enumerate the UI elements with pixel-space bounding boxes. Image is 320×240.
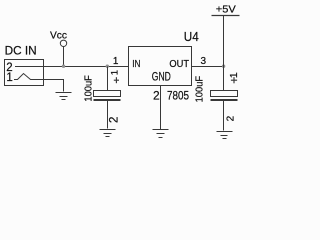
capacitor C2 bottom plate	[211, 99, 238, 101]
svg-text:1: 1	[6, 72, 12, 84]
capacitor C1 top plate	[94, 91, 121, 97]
capacitor C2 top plate	[211, 91, 238, 97]
svg-text:GND: GND	[152, 71, 171, 83]
svg-text:100uF: 100uF	[83, 75, 95, 102]
wire right cap bottom stem	[223, 101, 225, 131]
wire main net from J1 pin2 to U4 IN	[44, 66, 129, 68]
svg-text:100uF: 100uF	[193, 76, 205, 103]
svg-text:3: 3	[201, 56, 207, 67]
svg-text:U4: U4	[184, 29, 199, 44]
junction at C left	[106, 65, 109, 68]
power port +5V bar	[212, 15, 240, 17]
junction at right cap	[222, 65, 225, 68]
capacitor C2 plus sign	[231, 77, 237, 83]
svg-text:1: 1	[109, 70, 120, 75]
power port Vcc circle	[60, 40, 66, 46]
connector J1 pin 2 contact line	[15, 66, 44, 68]
svg-text:2: 2	[225, 115, 236, 121]
wire left cap top stem	[107, 67, 109, 91]
wire J1 pin1 to ground	[44, 80, 64, 92]
capacitor C1 bottom plate	[94, 99, 121, 101]
svg-text:2: 2	[153, 88, 160, 102]
ground under U4	[153, 130, 169, 138]
svg-text:+5V: +5V	[216, 4, 236, 16]
junction at Vcc	[62, 65, 65, 68]
svg-text:DC IN: DC IN	[5, 43, 37, 57]
capacitor C1 plus sign	[114, 77, 119, 83]
svg-text:7805: 7805	[167, 88, 189, 102]
wire U4 GND stem	[160, 86, 162, 130]
ground under C1	[100, 130, 116, 137]
wire +5V stem down to right cap	[223, 16, 225, 91]
svg-text:IN: IN	[132, 59, 140, 70]
svg-text:2: 2	[108, 117, 120, 123]
ground under C2	[217, 132, 233, 139]
wire Vcc stem	[63, 47, 65, 67]
connector J1 pin 1 contact line	[14, 74, 44, 80]
svg-text:1: 1	[113, 56, 119, 67]
wire U4 OUT to +5V net	[192, 66, 224, 68]
connector J1 body	[5, 60, 44, 86]
wire left cap bottom stem	[107, 101, 109, 129]
svg-text:OUT: OUT	[169, 59, 189, 70]
regulator U4 body	[129, 47, 192, 86]
ground under J1	[56, 93, 72, 100]
